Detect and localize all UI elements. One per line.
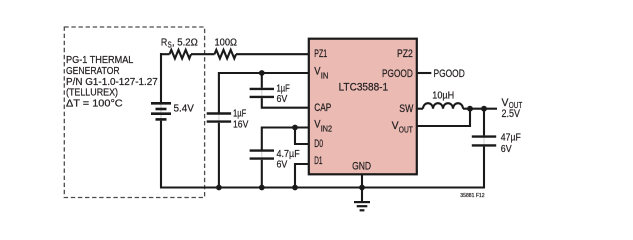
svg-text:OUT: OUT — [399, 126, 413, 135]
svg-text:6V: 6V — [277, 94, 288, 105]
svg-text:D0: D0 — [314, 138, 323, 150]
junction node D1 bus — [292, 185, 298, 191]
wire VOUT pin to inductor output node — [417, 108, 470, 126]
svg-text:ΔT = 100°C: ΔT = 100°C — [66, 98, 123, 109]
wire bus to ground symbol — [361, 188, 363, 202]
junction node output cap — [481, 106, 487, 112]
wire battery to resistor RS — [160, 53, 170, 55]
svg-text:IN2: IN2 — [321, 124, 333, 133]
svg-text:SW: SW — [399, 103, 414, 115]
svg-text:47µF: 47µF — [501, 132, 521, 143]
svg-text:1µF: 1µF — [233, 108, 246, 119]
wire C2 to CAP pin — [262, 98, 309, 108]
svg-text:35881 F12: 35881 F12 — [460, 193, 484, 199]
junction node VIN2 D0 — [292, 125, 298, 131]
svg-text:, 5.2Ω: , 5.2Ω — [172, 38, 198, 49]
wire VIN2 node to D0 pin — [295, 128, 309, 145]
svg-text:P/N G1-1.0-127-1.27: P/N G1-1.0-127-1.27 — [66, 77, 158, 88]
svg-text:16V: 16V — [233, 120, 249, 131]
junction node C3 bus — [259, 185, 265, 191]
svg-text:PZ2: PZ2 — [397, 48, 413, 60]
op IC U1 LTC3588-1 body — [309, 39, 417, 175]
svg-text:100Ω: 100Ω — [215, 38, 238, 49]
svg-text:CAP: CAP — [314, 102, 331, 114]
wire VIN pin to storage cap — [219, 73, 309, 113]
resistor RS zigzag — [170, 50, 192, 59]
svg-text:PGOOD: PGOOD — [434, 68, 466, 80]
svg-text:2.5V: 2.5V — [502, 108, 521, 120]
svg-text:4.7µF: 4.7µF — [277, 149, 300, 160]
battery BT1 negative lead wire to bus — [160, 121, 162, 189]
capacitor C3 4.7uF 6V — [250, 151, 274, 159]
svg-text:6V: 6V — [277, 160, 288, 171]
svg-text:6V: 6V — [501, 144, 512, 155]
capacitor C4 47uF 6V — [472, 137, 496, 146]
svg-text:PGOOD: PGOOD — [382, 68, 413, 80]
junction node GND bus — [359, 185, 365, 191]
svg-text:(TELLUREX): (TELLUREX) — [66, 88, 118, 99]
svg-text:1µF: 1µF — [277, 83, 290, 94]
inductor L1 — [423, 103, 463, 109]
wire PGOOD stub — [417, 72, 431, 74]
battery BT1 positive lead wire — [160, 53, 162, 102]
svg-text:IN: IN — [321, 71, 329, 80]
ground symbol — [354, 202, 370, 210]
wire C1 to bus — [218, 123, 220, 189]
svg-text:PG-1 THERMAL: PG-1 THERMAL — [66, 55, 134, 66]
wire R1 to PZ1 pin — [236, 53, 309, 55]
dashed box thermal generator outline — [64, 27, 204, 198]
battery BT1 plates — [151, 103, 171, 120]
wire D1 pin to bus — [295, 164, 309, 188]
resistor R1 100ohm zigzag — [215, 50, 237, 59]
ground bus wire — [160, 186, 484, 188]
wire RS to R1 — [191, 53, 215, 55]
capacitor C2 1uF 6V — [250, 89, 274, 97]
svg-text:GND: GND — [352, 161, 371, 173]
svg-text:10µH: 10µH — [432, 91, 454, 102]
wire output node to C4 — [483, 109, 485, 136]
wire VIN2 pin to C3 — [262, 128, 309, 150]
svg-text:D1: D1 — [314, 155, 322, 167]
wire SW stub — [417, 108, 423, 110]
wire inductor to output — [463, 108, 497, 110]
junction node VIN cap — [259, 70, 265, 76]
wire GND pin to bus — [361, 174, 363, 188]
svg-text:LTC3588-1: LTC3588-1 — [339, 82, 389, 94]
junction node VOUT feedback — [467, 106, 473, 112]
capacitor C1 1uF 16V — [207, 114, 231, 122]
wire C3 to bus — [261, 160, 263, 189]
junction node C1 bus — [216, 185, 222, 191]
svg-text:R: R — [161, 38, 167, 49]
svg-text:PZ1: PZ1 — [314, 48, 327, 60]
wire C4 to bus — [483, 147, 485, 189]
svg-text:5.4V: 5.4V — [174, 103, 195, 114]
wire VIN node to C2 — [261, 73, 263, 88]
svg-text:GENERATOR: GENERATOR — [66, 66, 120, 77]
